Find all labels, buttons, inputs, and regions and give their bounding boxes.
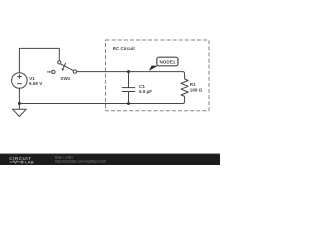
wire stub left throw [47,71,52,73]
svg-text:6.69 V: 6.69 V [29,81,43,86]
ground [13,104,26,117]
node NODE1 label box [157,57,178,66]
wire bottom rail (ground to resistor bottom) [20,96,185,103]
svg-text:RC Circuit: RC Circuit [113,46,136,51]
voltage source V1 [12,73,28,89]
svg-text:6.9 µF: 6.9 µF [139,89,152,94]
svg-text:LAB: LAB [25,160,34,165]
resistor R1 [181,79,188,96]
terminal common right [73,70,76,73]
junction dot at capacitor bottom [127,102,130,105]
junction dot at ground node [18,102,21,105]
junction dot at capacitor top [127,70,130,73]
wire V1 bottom to ground junction [18,88,20,103]
terminal top throw [58,61,61,64]
footer bar [0,154,220,166]
svg-text:R1: R1 [190,82,196,87]
svg-text:169 Ω: 169 Ω [190,87,203,92]
switch actuator arrow [63,63,66,69]
enclosure box (RC Circuit dashed rectangle) [106,40,210,111]
terminal open left [52,70,55,73]
CircuitLab logo [9,156,34,165]
node NODE1 flag pointer [149,66,158,71]
svg-text:http://circuitlab.com/c4q82bps: http://circuitlab.com/c4q82bps7ud5 [55,160,106,164]
svg-text:NODE1: NODE1 [159,60,175,65]
svg-text:SW1: SW1 [60,76,70,81]
switch blade [60,64,73,71]
wire top-left horizontal (V1 top to switch) [19,48,59,72]
wire switch common to resistor top [77,72,185,79]
capacitor C1 [122,72,135,104]
switch SW1 [47,61,77,74]
